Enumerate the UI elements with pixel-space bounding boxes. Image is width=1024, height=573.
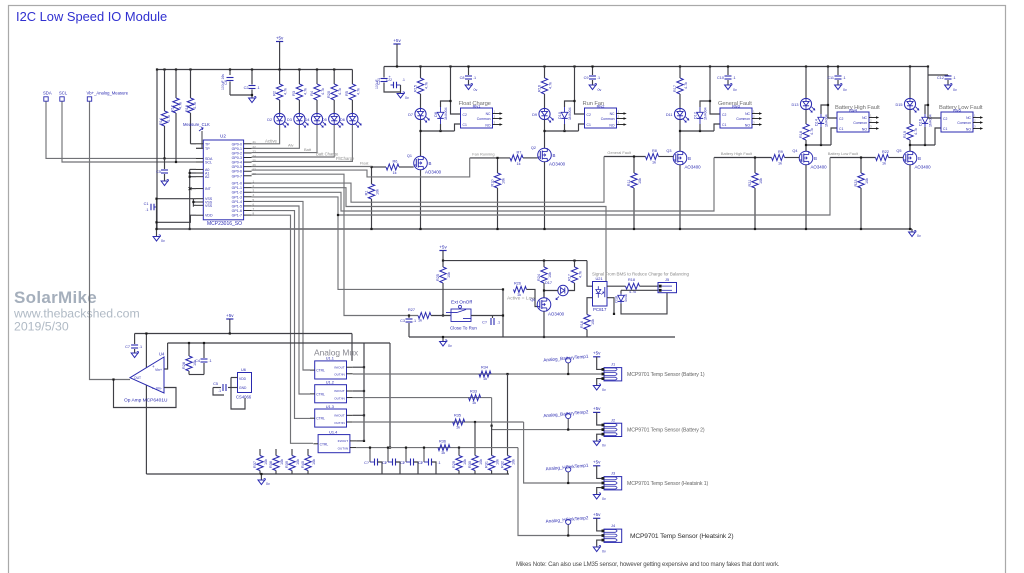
- svg-text:10k: 10k: [312, 459, 316, 465]
- ground below C5: [161, 181, 168, 186]
- svg-text:GP1-0: GP1-0: [232, 182, 242, 186]
- svg-text:GP1-6: GP1-6: [232, 209, 242, 213]
- svg-text:C9: C9: [584, 76, 589, 80]
- wire relay supply column block 3: [709, 65, 711, 67]
- svg-text:10k: 10k: [376, 189, 380, 195]
- LED D9 indicator block 2: [539, 108, 550, 119]
- svg-text:D17: D17: [545, 281, 552, 285]
- resistor R5 LED series 4.7k: [351, 70, 353, 85]
- wire switch to gate riser: [471, 315, 503, 317]
- svg-text:Vin-: Vin-: [156, 387, 163, 391]
- svg-text:10k: 10k: [463, 459, 467, 465]
- wire GP1-1 route to BMS opto: [252, 188, 606, 284]
- wire Q6 source to bottom rail: [543, 311, 545, 337]
- wire source to ground bus block 1: [420, 170, 422, 229]
- svg-text:R6: R6: [393, 160, 398, 164]
- svg-text:R24: R24: [537, 274, 541, 281]
- analog switch U1.4: [318, 435, 350, 453]
- relay Rly1 Float Charge: [461, 108, 493, 128]
- wire Vin+ riser: [164, 343, 168, 369]
- svg-text:R35: R35: [454, 414, 461, 418]
- svg-text:J3: J3: [611, 471, 615, 476]
- wire GP1-6 route to mux control 3: [252, 211, 310, 419]
- svg-text:.1: .1: [218, 389, 221, 393]
- svg-text:MCP9701 Temp Sensor (Heatsink: MCP9701 Temp Sensor (Heatsink 1): [627, 481, 709, 487]
- wire analog bottom ground rail: [146, 473, 509, 475]
- svg-text:4.7k: 4.7k: [303, 88, 307, 95]
- wire relay supply column block 5: [927, 65, 929, 67]
- wire analog rail to mux supply: [351, 334, 353, 361]
- svg-text:C8: C8: [460, 76, 465, 80]
- svg-text:OUT/IN: OUT/IN: [338, 446, 348, 450]
- svg-text:GP0-4: GP0-4: [232, 161, 242, 165]
- svg-text:D4: D4: [305, 118, 310, 122]
- wire indicator column from +5v bus block 2: [543, 65, 545, 67]
- svg-text:Batt: Batt: [304, 147, 312, 152]
- resistor R30 shunt: [474, 421, 476, 423]
- analog switch U1.1: [315, 361, 347, 379]
- resistor LED series 4.7k block 3: [677, 78, 683, 94]
- svg-text:CTRL: CTRL: [316, 417, 325, 421]
- svg-text:Mikes Note: Can also use LM35: Mikes Note: Can also use LM35 sensor, ho…: [516, 561, 780, 568]
- svg-text:R19: R19: [903, 131, 907, 138]
- svg-text:4.7k: 4.7k: [179, 102, 183, 109]
- ground relay decoupling block 5: [945, 85, 952, 90]
- wire drain node block 3: [680, 130, 714, 132]
- svg-text:1k: 1k: [418, 319, 422, 323]
- svg-text:OUT: OUT: [134, 376, 141, 380]
- resistor LED series 4.7k block 4: [803, 124, 809, 140]
- svg-text:10k: 10k: [502, 178, 506, 184]
- svg-text:VDD: VDD: [239, 377, 247, 381]
- wire R26 to mid transistor gate: [527, 289, 538, 306]
- svg-text:4.7k: 4.7k: [549, 82, 553, 89]
- svg-text:AO3400: AO3400: [549, 162, 566, 167]
- svg-text:+: +: [152, 364, 155, 369]
- wire relay supply column block 2: [573, 65, 575, 67]
- svg-text:C1: C1: [839, 127, 843, 131]
- svg-text:J1: J1: [611, 362, 615, 367]
- svg-text:MCP9701 Temp Sensor (Battery 2: MCP9701 Temp Sensor (Battery 2): [627, 428, 705, 434]
- wire relay coil return block 3: [714, 124, 720, 131]
- svg-text:Q2: Q2: [531, 146, 536, 150]
- resistor R6 gate 1k block 1: [386, 164, 399, 170]
- resistor R8 gate 1k block 3: [646, 154, 659, 160]
- wire GP1-5 route to mux control 2: [252, 206, 310, 394]
- resistor R26 gate 1k: [514, 286, 527, 292]
- wire diode top to relay supply block 4: [821, 105, 828, 114]
- svg-text:J5: J5: [665, 277, 669, 282]
- svg-text:D16: D16: [919, 119, 923, 126]
- svg-text:0v: 0v: [917, 234, 921, 238]
- svg-text:VDD: VDD: [205, 214, 213, 218]
- svg-text:C5: C5: [156, 170, 161, 174]
- svg-text:1k: 1k: [882, 162, 886, 166]
- svg-text:Fan Running: Fan Running: [472, 151, 494, 156]
- transistor Q4 AO3400 block 4: [799, 151, 813, 165]
- svg-text:C1: C1: [463, 123, 467, 127]
- wire LED D2 to GP0-0: [252, 125, 280, 144]
- svg-text:.1: .1: [413, 319, 416, 323]
- resistor R20 LED series 4.7k: [333, 70, 335, 85]
- svg-text:R31: R31: [484, 461, 488, 468]
- svg-text:Battery High Fault: Battery High Fault: [721, 151, 753, 156]
- op-amp U4 MCP6401 buffer: [130, 357, 164, 393]
- connector J1 temp sensor: [604, 368, 622, 381]
- svg-text:C?: C?: [418, 461, 423, 465]
- svg-text:R30: R30: [468, 461, 472, 468]
- relay Rly2 Run Fan: [585, 108, 617, 128]
- svg-text:AO3400: AO3400: [811, 165, 828, 170]
- wire source to ground bus block 3: [679, 165, 681, 229]
- svg-text:10k: 10k: [496, 459, 500, 465]
- resistor R24 drain pullup 10k: [543, 261, 545, 267]
- svg-text:4.7k: 4.7k: [425, 82, 429, 89]
- wire R25 to switch: [442, 283, 444, 316]
- svg-text:OUT/IN: OUT/IN: [334, 373, 344, 377]
- resistor R29 shunt: [458, 447, 460, 449]
- resistor R32 shunt: [506, 373, 508, 375]
- capacitor C22 0.1uF at bus end: [393, 82, 395, 89]
- svg-text:Analog Mux: Analog Mux: [314, 348, 359, 358]
- wire gate block 2: [470, 157, 510, 159]
- svg-text:VSS: VSS: [205, 204, 213, 208]
- svg-text:4.7k: 4.7k: [338, 88, 342, 95]
- svg-text:100uF 16v: 100uF 16v: [221, 74, 225, 90]
- capacitor C8 relay decoupling block 1: [468, 67, 470, 76]
- wire indicator column from +5v bus block 3: [679, 65, 681, 67]
- svg-text:CTRL: CTRL: [320, 442, 329, 446]
- svg-text:10k: 10k: [479, 459, 483, 465]
- ground at bus end caps: [400, 92, 402, 94]
- wire U1.4 input to common bus: [356, 440, 364, 442]
- svg-text:Rly5: Rly5: [953, 108, 961, 113]
- wire gate riser vertical: [502, 289, 504, 337]
- ground relay decoupling block 2: [589, 85, 596, 90]
- wire GP1-0 feed to driver 3: [252, 157, 604, 203]
- resistor R27 series 1k: [418, 313, 431, 319]
- wire SCL to U2: [62, 102, 196, 163]
- wire rail to opto: [587, 261, 593, 287]
- resistor R36 series 1k: [438, 445, 450, 451]
- svg-text:Q1: Q1: [407, 154, 412, 158]
- LED D11 indicator block 3: [674, 108, 685, 119]
- resistor R2 LED series 4.7k: [279, 70, 281, 85]
- wire GP0-6 feed to driver 2: [252, 158, 470, 177]
- wire left loop to bottom rail: [145, 334, 147, 475]
- svg-text:R34: R34: [481, 366, 488, 370]
- svg-text:.1: .1: [733, 76, 736, 80]
- svg-text:4.7k: 4.7k: [284, 88, 288, 95]
- svg-text:10k: 10k: [296, 459, 300, 465]
- svg-text:GP1-4: GP1-4: [232, 200, 242, 204]
- svg-text:AO3400: AO3400: [915, 165, 932, 170]
- svg-text:GP0-2: GP0-2: [232, 151, 242, 155]
- transistor Q2 AO3400 block 2: [538, 148, 552, 162]
- svg-text:+5v: +5v: [439, 244, 447, 249]
- wire VSS straps to ground: [193, 198, 196, 200]
- wire GP0-7 route to switch: [252, 174, 418, 315]
- svg-text:Close To Run: Close To Run: [450, 326, 477, 331]
- svg-text:U1.2: U1.2: [326, 380, 334, 385]
- svg-text:R20: R20: [327, 91, 331, 98]
- wire D17 to drain: [544, 291, 558, 298]
- wire middle ground rail: [409, 336, 675, 338]
- svg-text:GP0-1: GP0-1: [232, 147, 242, 151]
- capacitor C12 relay decoupling block 5: [928, 74, 948, 76]
- svg-text:+5v: +5v: [593, 406, 601, 411]
- svg-text:1N4004: 1N4004: [929, 114, 933, 127]
- svg-text:10k: 10k: [759, 178, 763, 184]
- svg-text:10k: 10k: [591, 319, 595, 325]
- svg-text:GP0-6: GP0-6: [232, 170, 242, 174]
- wire source to ground bus block 5: [909, 165, 911, 229]
- svg-text:MCP9701 Temp Sensor (Heatsink: MCP9701 Temp Sensor (Heatsink 2): [630, 533, 733, 540]
- resistor R13 CLK pullup: [190, 70, 192, 99]
- ground below C6/C2: [251, 95, 253, 98]
- svg-text:C1: C1: [943, 127, 947, 131]
- svg-text:1k: 1k: [472, 401, 476, 405]
- resistor R14 SDA pullup: [164, 70, 166, 112]
- svg-text:General Fault: General Fault: [607, 150, 631, 155]
- svg-text:.1: .1: [497, 321, 500, 325]
- ground relay decoupling block 3: [725, 85, 732, 90]
- svg-text:0v: 0v: [474, 88, 478, 92]
- capacitor C14 input filter: [408, 316, 410, 319]
- wire GP1-3 feed to driver 5: [252, 158, 830, 216]
- svg-text:NC: NC: [610, 112, 615, 116]
- svg-text:Common: Common: [853, 121, 867, 125]
- wire diode top to relay supply block 3: [700, 101, 710, 107]
- svg-text:IN/OUT: IN/OUT: [334, 365, 345, 369]
- terminal Vb+_Analog_Measure: [87, 97, 91, 101]
- ground relay decoupling block 4: [835, 85, 842, 90]
- svg-text:10k: 10k: [447, 272, 451, 278]
- wire drain node block 1: [421, 130, 455, 132]
- svg-text:NC: NC: [745, 112, 750, 116]
- svg-text:FltCharge: FltCharge: [336, 156, 355, 161]
- svg-text:1k: 1k: [393, 171, 397, 175]
- wire gate block 5: [830, 157, 876, 159]
- svg-text:Vb+_Analog_Measure: Vb+_Analog_Measure: [87, 91, 129, 96]
- LED D5 indicator: [329, 113, 340, 124]
- resistor R35 series 1k: [453, 419, 465, 425]
- wire zener loop to J5 return: [621, 293, 667, 314]
- svg-text:.1: .1: [139, 345, 142, 349]
- svg-text:NC: NC: [486, 112, 491, 116]
- wire gate block 3: [604, 156, 646, 158]
- svg-text:1k: 1k: [652, 161, 656, 165]
- terminal SDA: [44, 97, 48, 101]
- wire mux out 4 to sensor 4: [356, 447, 518, 449]
- svg-text:OUT/IN: OUT/IN: [334, 421, 344, 425]
- wire source to ground bus block 4: [805, 165, 807, 229]
- svg-text:R39: R39: [285, 461, 289, 468]
- svg-text:I2C Low Speed IO Module: I2C Low Speed IO Module: [16, 9, 167, 24]
- svg-text:R8: R8: [652, 149, 657, 153]
- svg-text:0v: 0v: [448, 344, 452, 348]
- capacitor C10 relay decoupling block 3: [727, 67, 729, 76]
- resistor R28 divider: [188, 343, 190, 356]
- wire LED D4 to GP0-2: [252, 125, 317, 153]
- transistor Q5 AO3400 block 5: [903, 151, 917, 165]
- svg-text:A2: A2: [205, 175, 209, 179]
- ground top-right bus end: [911, 229, 913, 232]
- LED D4 indicator: [311, 113, 322, 124]
- svg-text:R2: R2: [272, 91, 276, 96]
- wire mid driver gate feed: [338, 215, 503, 289]
- resistor R34 series 1k: [479, 371, 491, 377]
- wire +5v top bus left segment: [157, 69, 352, 71]
- svg-text:.1: .1: [473, 76, 476, 80]
- svg-text:NO: NO: [862, 127, 867, 131]
- wire pulldown to ground bus block 3: [633, 188, 635, 229]
- svg-text:Signal From BMS to Reduce Char: Signal From BMS to Reduce Charge for Bal…: [592, 272, 689, 277]
- svg-text:Common: Common: [736, 117, 750, 121]
- LED D17 run indicator: [568, 283, 574, 291]
- svg-text:0v: 0v: [598, 88, 602, 92]
- wire relay supply column block 4: [827, 65, 829, 67]
- svg-text:4.7k: 4.7k: [810, 128, 814, 135]
- svg-text:10k: 10k: [865, 178, 869, 184]
- svg-text:SDA: SDA: [43, 91, 52, 96]
- wire +5v middle rail: [443, 260, 587, 262]
- capacitor C17 filter: [369, 448, 371, 462]
- svg-text:0v: 0v: [733, 88, 737, 92]
- svg-text:OUT/IN: OUT/IN: [334, 396, 344, 400]
- svg-text:R33: R33: [470, 389, 477, 393]
- svg-text:R12: R12: [171, 105, 175, 112]
- svg-text:R17: R17: [567, 274, 571, 281]
- svg-text:U21: U21: [596, 276, 603, 281]
- wire U1.2 input to common bus: [353, 390, 364, 392]
- wire relay coil return block 5: [935, 128, 941, 145]
- svg-text:Common: Common: [957, 121, 971, 125]
- svg-text:GP0-3: GP0-3: [232, 156, 242, 160]
- test point Analog_BatteryTemp2: [566, 413, 571, 418]
- svg-text:.1: .1: [257, 86, 260, 90]
- ground below C7: [131, 353, 138, 358]
- svg-text:4.7k: 4.7k: [579, 271, 583, 278]
- svg-text:C?: C?: [364, 461, 369, 465]
- svg-text:D18: D18: [615, 296, 619, 303]
- svg-text:B: B: [553, 153, 556, 158]
- wire pulldown to ground bus block 4: [754, 188, 756, 229]
- wire SDA to U2: [46, 102, 196, 159]
- svg-text:Battery High Fault: Battery High Fault: [835, 105, 880, 111]
- svg-text:GP1-5: GP1-5: [232, 204, 242, 208]
- svg-text:10k: 10k: [512, 459, 516, 465]
- svg-text:B: B: [688, 156, 691, 161]
- svg-text:R32: R32: [500, 461, 504, 468]
- svg-text:4.7k: 4.7k: [684, 82, 688, 89]
- wire J5 pin 2 line: [621, 289, 658, 291]
- svg-text:Active: Active: [265, 138, 278, 143]
- capacitor C1 decoupling: [150, 204, 152, 211]
- svg-text:1k: 1k: [456, 425, 460, 429]
- svg-text:SCL: SCL: [205, 161, 212, 165]
- resistor R25 pullup 10k: [442, 261, 444, 267]
- svg-text:1k: 1k: [517, 293, 521, 297]
- svg-text:TP: TP: [205, 147, 210, 151]
- svg-text:GP0-0: GP0-0: [232, 142, 242, 146]
- svg-text:.1: .1: [843, 76, 846, 80]
- svg-text:R38: R38: [269, 461, 273, 468]
- svg-text:+5v: +5v: [276, 35, 284, 40]
- svg-text:NO: NO: [609, 123, 614, 127]
- capacitor C7 rail decoupling: [134, 334, 136, 345]
- svg-text:D2: D2: [267, 118, 272, 122]
- wire Vb+_Analog_Measure to op-amp output: [90, 102, 131, 380]
- wire U1.1 input to common bus: [353, 366, 364, 368]
- capacitor C6 100uF bulk: [229, 70, 231, 76]
- connector J5 BMS input: [658, 283, 677, 293]
- svg-text:Battery Low Fault: Battery Low Fault: [828, 151, 859, 156]
- svg-text:10k: 10k: [548, 272, 552, 278]
- wire pulldown to ground bus block 5: [860, 188, 862, 229]
- wire left vertical VDD/ground column: [156, 70, 158, 230]
- svg-text:NC: NC: [966, 116, 971, 120]
- svg-text:1N4004: 1N4004: [444, 107, 448, 120]
- relay Rly3 contact pins: [752, 113, 759, 115]
- relay Rly3 General Fault: [720, 108, 752, 128]
- wire GP1-2 feed to driver 4: [252, 158, 714, 212]
- svg-text:2019/5/30: 2019/5/30: [14, 320, 69, 334]
- svg-text:MCP23016_SO: MCP23016_SO: [207, 221, 242, 227]
- resistor R12 SCL pullup: [175, 70, 177, 99]
- wire Vin- feedback loop: [114, 380, 177, 408]
- svg-text:1N4004: 1N4004: [568, 107, 572, 120]
- resistor R33 series 1k: [469, 395, 481, 401]
- svg-text:SolarMike: SolarMike: [14, 288, 97, 307]
- svg-text:1N4004: 1N4004: [704, 107, 708, 120]
- svg-text:Q5: Q5: [896, 149, 901, 153]
- capacitor C18 filter: [387, 448, 389, 462]
- svg-text:R10: R10: [490, 180, 494, 187]
- svg-text:B: B: [918, 156, 921, 161]
- wire ground bus: [157, 228, 913, 230]
- connector J4 temp sensor: [604, 529, 622, 542]
- LED D3 indicator: [294, 113, 305, 124]
- resistor R18 4.7k BMS: [626, 283, 640, 289]
- diode D16 1N4004 flyback block 5: [922, 117, 928, 123]
- test point Analog_BatteryTemp1: [566, 358, 571, 363]
- svg-text:U2: U2: [220, 134, 226, 139]
- wire GP1-4 route to mux control 1: [252, 201, 310, 370]
- wire reference riser: [231, 377, 238, 379]
- svg-text:R11: R11: [627, 180, 631, 187]
- resistor R31 shunt: [491, 425, 493, 427]
- wire GP0-5 feed to driver 1: [252, 166, 372, 168]
- LED D2 indicator: [274, 113, 285, 124]
- svg-text:R5: R5: [345, 91, 349, 96]
- svg-text:0v: 0v: [266, 482, 270, 486]
- resistor R1 gate pulldown block 1: [371, 167, 373, 184]
- wire R28/C15 bottoms: [188, 371, 190, 375]
- wire gate block 1: [372, 166, 387, 168]
- relay Rly1 contact pins: [493, 113, 500, 115]
- wire relay coil return block 4: [831, 128, 837, 145]
- svg-text:U6: U6: [241, 367, 246, 372]
- svg-text:0v: 0v: [161, 239, 165, 243]
- svg-text:Measure_CLK: Measure_CLK: [183, 122, 210, 127]
- svg-text:TP: TP: [205, 142, 210, 146]
- svg-text:Rly1: Rly1: [473, 104, 481, 109]
- relay Rly4 Battery High Fault: [837, 112, 869, 132]
- wire mux common vertical: [363, 343, 365, 441]
- opto U21 PC817: [593, 282, 608, 307]
- svg-text:D7: D7: [408, 113, 413, 117]
